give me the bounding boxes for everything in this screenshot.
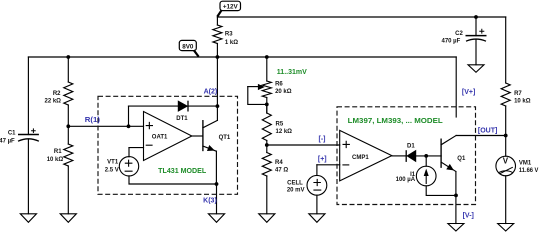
svg-text:[+]: [+] — [318, 156, 327, 163]
svg-text:1 kΩ: 1 kΩ — [225, 40, 238, 46]
svg-text:20 mV: 20 mV — [287, 188, 305, 194]
svg-text:10 kΩ: 10 kΩ — [514, 99, 531, 105]
svg-text:VT1: VT1 — [107, 160, 119, 166]
svg-text:R4: R4 — [275, 160, 283, 166]
svg-text:R2: R2 — [53, 91, 61, 97]
svg-text:QT1: QT1 — [219, 135, 231, 141]
svg-text:[V+]: [V+] — [462, 89, 475, 96]
svg-text:R3: R3 — [225, 31, 233, 37]
svg-text:20 kΩ: 20 kΩ — [275, 89, 292, 95]
svg-text:A(2): A(2) — [204, 88, 218, 95]
svg-text:+12V: +12V — [223, 4, 239, 11]
svg-text:12 kΩ: 12 kΩ — [276, 129, 293, 135]
svg-text:C2: C2 — [455, 31, 463, 37]
svg-text:11..31mV: 11..31mV — [277, 69, 307, 76]
svg-text:V: V — [503, 156, 509, 165]
svg-text:22 kΩ: 22 kΩ — [45, 99, 62, 105]
svg-text:CMP1: CMP1 — [352, 155, 369, 161]
svg-text:[V-]: [V-] — [463, 212, 474, 219]
svg-text:8V0: 8V0 — [182, 43, 194, 50]
svg-text:CELL: CELL — [287, 181, 303, 187]
svg-text:R5: R5 — [276, 122, 284, 128]
svg-text:10 kΩ: 10 kΩ — [47, 157, 64, 163]
svg-text:OAT1: OAT1 — [152, 134, 168, 140]
svg-text:K(3): K(3) — [203, 198, 217, 205]
svg-text:R6: R6 — [275, 82, 283, 88]
svg-text:R1: R1 — [54, 149, 62, 155]
svg-text:C1: C1 — [8, 130, 16, 136]
svg-text:LM397, LM393, ... MODEL: LM397, LM393, ... MODEL — [348, 118, 444, 125]
svg-text:R(1): R(1) — [85, 117, 100, 124]
svg-text:100 µA: 100 µA — [396, 177, 416, 183]
svg-text:47 µF: 47 µF — [0, 138, 15, 144]
svg-text:470 µF: 470 µF — [441, 38, 460, 44]
svg-text:D1: D1 — [407, 144, 415, 150]
svg-text:VM1: VM1 — [519, 161, 532, 167]
svg-text:2.5 V: 2.5 V — [105, 167, 119, 173]
svg-text:Q1: Q1 — [457, 156, 466, 162]
svg-text:[-]: [-] — [319, 136, 326, 143]
svg-text:[OUT]: [OUT] — [478, 128, 497, 135]
svg-text:11.66 V: 11.66 V — [519, 168, 539, 174]
svg-text:47 Ω: 47 Ω — [275, 168, 288, 174]
svg-text:TL431 MODEL: TL431 MODEL — [158, 168, 207, 175]
svg-text:R7: R7 — [514, 91, 522, 97]
svg-text:DT1: DT1 — [176, 116, 188, 122]
